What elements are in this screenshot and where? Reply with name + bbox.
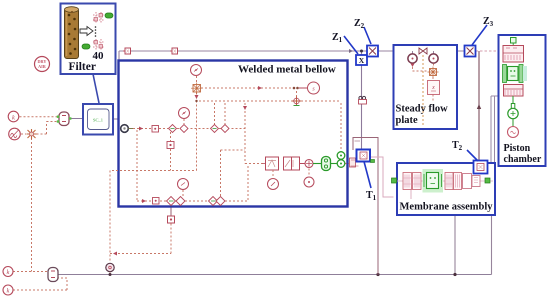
Z3 label + leader <box>472 25 487 45</box>
diamond A1 <box>169 125 177 133</box>
filter mini circuit lower <box>93 39 104 50</box>
gauge below orifice <box>304 177 314 187</box>
arrow drain <box>113 252 117 256</box>
svg-text:k: k <box>7 288 10 295</box>
port node <box>121 125 133 133</box>
wire capsule to SC1 <box>70 118 83 120</box>
dashed green riser <box>340 103 342 151</box>
SFP cross <box>428 67 439 78</box>
filter green capsule upper <box>105 13 113 18</box>
SFP gauge 1 <box>408 51 417 67</box>
filter box <box>61 4 116 75</box>
gauge g3 <box>308 82 320 94</box>
Z1 label + leader <box>344 36 358 54</box>
gauge g4 <box>178 179 189 190</box>
dashed k1 line <box>13 271 47 273</box>
filter leader line <box>93 74 99 103</box>
arrow on T2 drop <box>477 104 481 109</box>
piston chamber box <box>499 35 546 166</box>
diamond B4 <box>216 197 225 206</box>
dashed bottom row <box>137 200 248 202</box>
dashed y101 right wire <box>301 100 341 102</box>
filter mini squares upper <box>99 14 103 18</box>
gauge g3 link <box>299 87 308 89</box>
plug component 1 <box>123 48 131 54</box>
arrow supply line <box>349 49 353 53</box>
plug component 2 <box>170 48 178 54</box>
arrow x245 down <box>243 106 247 110</box>
filter mini squares lower <box>94 41 98 45</box>
dashed T1 feed <box>345 163 350 165</box>
dashed row A wire <box>133 128 245 130</box>
wire membrane drop right <box>491 215 493 275</box>
membrane center green <box>423 169 444 193</box>
cross junction 1 <box>191 83 202 95</box>
Z2 label + leader <box>364 27 371 44</box>
drain square component <box>168 216 175 223</box>
arrow cross1 down <box>195 95 199 99</box>
svg-text:chamber: chamber <box>504 154 542 165</box>
svg-text:Steady flow: Steady flow <box>396 104 449 115</box>
wire piston to membrane left <box>490 96 492 163</box>
dashed y88 wire <box>201 87 292 89</box>
wire supply line top <box>119 51 465 61</box>
dashed diamond risers <box>215 103 226 125</box>
filter cylinder <box>65 7 79 59</box>
svg-text:Welded metal bellow: Welded metal bellow <box>238 64 336 76</box>
diamond A4 <box>221 125 229 133</box>
dashed cross1 column <box>196 93 198 171</box>
diamond B3 <box>209 197 218 206</box>
svg-text:x: x <box>431 85 435 91</box>
square valve C <box>153 198 160 205</box>
diamond B2 <box>176 197 185 206</box>
piston mass neck <box>511 104 515 109</box>
filter block arrow <box>80 27 93 36</box>
dashed square B risers <box>170 132 172 171</box>
T2 box <box>474 161 488 174</box>
bowtie valve on line <box>419 48 427 54</box>
dashed crossover horizontal <box>112 170 197 172</box>
piston green top <box>511 38 517 46</box>
SFP dashed links <box>413 64 434 102</box>
arrow row A <box>139 127 143 131</box>
piston link <box>512 119 514 127</box>
Z2 box <box>367 46 378 57</box>
pneumatic capsule lower <box>48 268 58 282</box>
dashed left long vertical <box>31 138 33 272</box>
dashed left column <box>136 130 138 201</box>
k source 2 <box>3 285 13 295</box>
membrane assembly box <box>397 163 495 215</box>
green circle pair <box>337 152 345 168</box>
SFP gauge 2 <box>429 51 438 63</box>
green link right <box>331 163 338 165</box>
dashed y150 branch <box>221 150 246 196</box>
wire bottom bus <box>58 274 492 276</box>
membrane green port right <box>485 178 490 183</box>
svg-text:Piston: Piston <box>504 143 531 154</box>
svg-text:Membrane assembly: Membrane assembly <box>400 202 494 213</box>
Z3 box <box>465 46 476 57</box>
svg-text:k: k <box>7 269 10 276</box>
junction bus-gauge <box>109 273 112 276</box>
junction dots y88 <box>293 87 296 90</box>
dashed k3 line <box>20 116 58 118</box>
orange drop dashed <box>422 55 424 127</box>
cross junction 2 <box>292 97 301 106</box>
membrane connector line <box>397 180 493 182</box>
dashed gauge2 stem <box>183 119 185 124</box>
T2 label + leader <box>467 150 478 161</box>
diamond B1 <box>167 197 176 206</box>
SFP rect component <box>428 81 440 95</box>
piston red circle <box>508 127 519 138</box>
gauge g2 <box>179 108 190 119</box>
pneumatic capsule upper <box>57 112 72 126</box>
dashed gauge5 stem <box>308 169 310 177</box>
dashed gauge1 stem <box>196 76 198 84</box>
dashed sine to valve <box>21 133 26 135</box>
svg-text:AIR: AIR <box>38 64 47 69</box>
filter mini circuit upper <box>93 12 104 23</box>
k source 3 <box>8 111 19 122</box>
DRY AIR source <box>35 57 50 72</box>
green link left <box>313 163 322 165</box>
wire SC1 to bellow <box>113 119 121 127</box>
svg-text:SC_1: SC_1 <box>93 118 103 123</box>
gauge bottom left <box>106 263 114 271</box>
green capsule <box>322 157 331 171</box>
membrane stub <box>410 190 412 199</box>
svg-text:Filter: Filter <box>69 61 96 73</box>
junction bus-membrane <box>453 273 456 276</box>
green tick T1 <box>371 160 375 163</box>
welded metal bellow box <box>119 61 348 207</box>
red mini valve <box>350 158 359 167</box>
square valve B <box>167 142 174 149</box>
filter green capsule lower <box>82 44 90 49</box>
piston green assembly <box>503 65 528 83</box>
junction bus-T1 <box>376 273 379 276</box>
junction dot y101 <box>195 100 197 102</box>
wire membrane drop mid <box>454 190 456 275</box>
membrane small rect <box>472 176 480 187</box>
arrow bottom row <box>142 199 146 203</box>
dashed gauge4 stem <box>182 190 184 196</box>
membrane bellow right <box>445 173 462 190</box>
orifice link <box>300 163 306 165</box>
piston block 2 <box>504 85 524 97</box>
sine source <box>9 128 21 140</box>
Z1 box <box>356 55 367 65</box>
svg-text:X: X <box>359 56 365 65</box>
arrow y88 <box>258 86 262 90</box>
T1 box <box>357 150 371 162</box>
anchor component <box>359 96 367 104</box>
wire piston stub <box>491 95 503 97</box>
dashed k2 line <box>13 278 67 290</box>
SC1 box <box>83 104 113 135</box>
gauge g1 <box>191 65 202 76</box>
diamond A2 <box>180 125 188 133</box>
gauge below relief <box>268 170 279 190</box>
ratio valve X <box>27 129 37 139</box>
junction supply-Z1 <box>360 50 363 53</box>
dashed x245 column <box>244 103 246 164</box>
wire supply drop to T2 <box>478 51 480 161</box>
square valve A <box>152 126 159 133</box>
dashed cross2 stem <box>296 91 298 97</box>
drain drop line <box>170 206 172 217</box>
k source 1 <box>3 267 13 277</box>
dashed y101 left wire <box>199 100 292 102</box>
membrane white rect <box>463 174 472 189</box>
T1 leader <box>364 162 371 189</box>
wire T1 loop <box>353 138 378 275</box>
wire T1 loop inner <box>355 140 361 142</box>
membrane green port left <box>392 178 397 183</box>
wire Z3 to piston dashed <box>476 50 504 52</box>
membrane bellow left <box>403 173 421 190</box>
wire T1 to membrane pink <box>370 157 394 197</box>
steady flow plate box <box>394 45 458 129</box>
filter dots <box>95 26 97 37</box>
directional valve <box>284 157 300 170</box>
piston green circle <box>508 108 518 118</box>
svg-text:plate: plate <box>396 115 419 126</box>
orifice circle <box>305 160 313 168</box>
wire piston to membrane right <box>494 96 496 163</box>
wire Z1 stub <box>361 51 363 55</box>
dashed gauge riser left <box>109 171 111 275</box>
piston block 1 <box>503 46 524 63</box>
svg-text:k: k <box>12 114 15 121</box>
piston stem <box>512 96 514 104</box>
dashed valve to capsule <box>37 122 58 135</box>
dashed drain riser <box>110 224 171 254</box>
dashed valve feed <box>245 164 266 202</box>
relief valve square <box>263 157 279 170</box>
diamond A3 <box>211 125 219 133</box>
wire Z1 to T1 vertical <box>361 65 363 150</box>
